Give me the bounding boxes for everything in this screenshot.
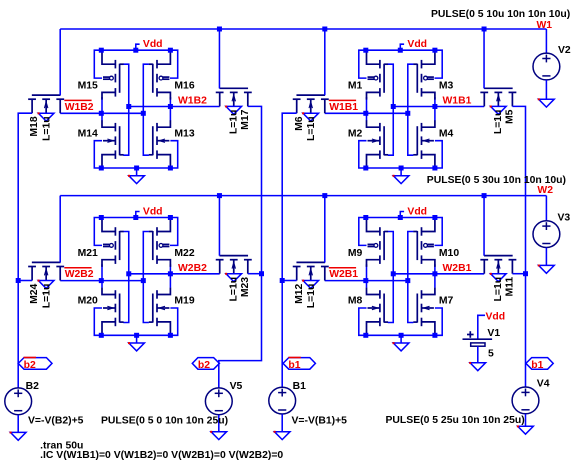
svg-text:M23: M23 — [240, 277, 251, 297]
ground under B2 — [10, 432, 26, 440]
transistor M16 (PMOS) — [149, 52, 171, 100]
wire bulk of M14 to gnd rail — [94, 141, 102, 168]
wire Vdd tap — [400, 212, 404, 218]
junction M23 tap — [259, 271, 264, 276]
junction — [363, 111, 368, 116]
transistor M3 (PMOS) — [413, 52, 435, 100]
junction — [168, 166, 173, 171]
wire bulk of M2 to gnd rail — [359, 141, 367, 168]
junction — [168, 48, 173, 53]
junction M24 tap — [16, 278, 21, 283]
wire M9 drain to node — [366, 264, 368, 280]
junction — [126, 104, 131, 109]
wire Vdd rail — [101, 49, 170, 51]
wire Vdd tap — [400, 44, 404, 50]
svg-text:M12: M12 — [294, 283, 305, 303]
junction — [432, 48, 437, 53]
wire Vdd rail — [366, 49, 435, 51]
junction — [99, 278, 104, 283]
transistor M23 (access NMOS) — [216, 256, 252, 274]
svg-text:V1: V1 — [487, 328, 500, 339]
wire W2 to M24 gate — [59, 196, 61, 263]
wire V2 to ground — [545, 80, 547, 99]
wire V3 to ground — [545, 248, 547, 266]
wire gates of M21,M20 cross-couple — [123, 232, 128, 323]
transistor M20 (NMOS) — [102, 288, 124, 336]
wire bulk of M3 to Vdd — [435, 50, 443, 78]
wire Vdd rail — [101, 217, 170, 219]
svg-text:W2: W2 — [537, 185, 553, 196]
svg-text:M4: M4 — [439, 128, 454, 139]
svg-text:M10: M10 — [439, 248, 459, 259]
voltage source B1 — [269, 387, 296, 414]
ground of cell — [393, 343, 409, 351]
junction — [99, 215, 104, 220]
svg-text:W2B1: W2B1 — [329, 269, 358, 280]
svg-text:V5: V5 — [230, 381, 243, 392]
wire bit line b2 (left bus) — [18, 113, 32, 388]
wire M23 right terminal — [248, 273, 262, 275]
junction — [217, 193, 222, 198]
transistor M12 (access NMOS) — [293, 262, 329, 280]
voltage source B2 — [5, 388, 32, 415]
ground at bulk of M11 — [491, 274, 507, 282]
wire Vdd tap — [136, 44, 140, 50]
wire bulk of M10 to Vdd — [435, 218, 443, 246]
svg-text:L=1u: L=1u — [493, 277, 504, 302]
voltage source V5 — [205, 388, 232, 415]
svg-text:W1B2: W1B2 — [65, 102, 94, 113]
wire bulk of M15 to Vdd — [94, 50, 102, 78]
transistor M15 (PMOS) — [102, 52, 124, 100]
wire Vdd rail — [366, 217, 435, 219]
wire B2 to ground — [17, 415, 19, 433]
wire M22 drain to node — [169, 264, 171, 274]
wire M24 left terminal — [18, 280, 32, 282]
transistor M24 (access NMOS) — [28, 262, 64, 280]
wire W2 to M12 gate — [324, 196, 326, 263]
wire node W2B1 row — [393, 273, 484, 275]
svg-text:M17: M17 — [240, 109, 251, 129]
transistor M21 (PMOS) — [102, 219, 124, 267]
wire M7 drain to node — [434, 274, 436, 288]
voltage source V3 — [533, 221, 560, 248]
junction M11 tap — [523, 271, 528, 276]
wire W1 to M5 gate — [483, 29, 485, 88]
junction — [432, 271, 437, 276]
junction — [363, 278, 368, 283]
junction — [399, 166, 404, 171]
svg-text:Vdd: Vdd — [143, 207, 163, 218]
transistor M13 (NMOS) — [149, 120, 171, 168]
wire Vdd tap — [136, 212, 140, 218]
wire ground stem — [400, 168, 402, 176]
junction — [99, 333, 104, 338]
svg-text:M20: M20 — [78, 296, 98, 307]
wire bulk of M8 to gnd rail — [359, 308, 367, 335]
wire bit line b2 (mid bus) — [219, 106, 262, 387]
junction — [482, 27, 487, 32]
svg-text:M19: M19 — [174, 296, 194, 307]
transistor M5 (access NMOS) — [480, 88, 516, 106]
wire gates of M9,M8 cross-couple — [388, 232, 393, 323]
wire M15 drain to node — [101, 97, 103, 113]
svg-text:W1: W1 — [537, 20, 553, 31]
wire bulk of M16 to Vdd — [170, 50, 178, 78]
svg-text:M16: M16 — [174, 81, 194, 92]
wire bit line b1 (B1 bus) — [282, 113, 297, 387]
ground at bulk of M17 — [226, 106, 242, 114]
transistor M17 (access NMOS) — [216, 88, 252, 106]
svg-text:.IC V(W1B1)=0 V(W1B2)=0 V(W2B1: .IC V(W1B1)=0 V(W1B2)=0 V(W2B1)=0 V(W2B2… — [40, 450, 283, 461]
svg-text:V3: V3 — [558, 213, 571, 224]
wire M16 drain to node — [169, 97, 171, 107]
transistor M10 (PMOS) — [413, 219, 435, 267]
svg-text:V=-V(B1)+5: V=-V(B1)+5 — [292, 415, 348, 426]
svg-text:L=1u: L=1u — [42, 116, 53, 141]
junction — [126, 271, 131, 276]
wire ground rail — [366, 167, 435, 169]
wire M11 right terminal — [512, 273, 525, 275]
svg-text:V=-V(B2)+5: V=-V(B2)+5 — [28, 415, 84, 426]
junction — [363, 333, 368, 338]
wire M21 drain to node — [101, 264, 103, 280]
wire W2 to M11 gate — [483, 196, 485, 256]
transistor M19 (NMOS) — [149, 288, 171, 336]
svg-text:M18: M18 — [29, 116, 40, 136]
wire ground stem — [136, 168, 138, 176]
junction — [322, 27, 327, 32]
ground of cell — [129, 343, 145, 351]
wire bulk of M9 to Vdd — [359, 218, 367, 246]
svg-text:W2B2: W2B2 — [178, 263, 207, 274]
svg-text:M13: M13 — [174, 128, 194, 139]
wire bulk of M20 to gnd rail — [94, 308, 102, 335]
svg-text:W1B1: W1B1 — [329, 102, 358, 113]
junction — [405, 278, 410, 283]
junction — [363, 215, 368, 220]
svg-text:5: 5 — [488, 349, 494, 360]
wire M12 left terminal — [282, 280, 297, 282]
wire V4 to ground — [525, 414, 527, 426]
wire ground stem — [136, 335, 138, 343]
junction — [405, 111, 410, 116]
svg-text:V2: V2 — [558, 45, 571, 56]
junction — [432, 104, 437, 109]
voltage source V2 — [533, 53, 560, 80]
junction — [217, 27, 222, 32]
svg-text:PULSE(0 5 25u 10n 10n 25u): PULSE(0 5 25u 10n 10n 25u) — [386, 415, 525, 426]
svg-text:B1: B1 — [293, 381, 307, 392]
ground of cell — [129, 176, 145, 184]
junction — [432, 166, 437, 171]
wire bulk of M7 to gnd rail — [435, 308, 442, 335]
svg-text:M24: M24 — [29, 283, 40, 303]
ground at bulk of M12 — [303, 281, 319, 289]
ground under V1 — [470, 363, 486, 371]
junction — [322, 193, 327, 198]
transistor M7 (NMOS) — [413, 288, 435, 336]
wire bulk of M1 to Vdd — [359, 50, 367, 78]
svg-text:M9: M9 — [348, 248, 363, 259]
wire W1 to M6 gate — [324, 29, 326, 95]
wire bit line b1 (right bus) — [512, 106, 525, 387]
wire M4 drain to node — [434, 107, 436, 121]
wire M20 drain to node — [101, 281, 103, 288]
svg-text:M2: M2 — [348, 128, 363, 139]
svg-text:M7: M7 — [439, 296, 454, 307]
transistor M2 (NMOS) — [367, 120, 389, 168]
wire gates of M1,M2 cross-couple — [388, 64, 393, 155]
port b1 at V4 — [526, 358, 553, 370]
wire V5 to ground — [218, 415, 220, 432]
junction — [398, 215, 403, 220]
wire M10 drain to node — [434, 264, 436, 274]
junction — [398, 48, 403, 53]
svg-text:W1B2: W1B2 — [178, 96, 207, 107]
svg-text:Vdd: Vdd — [407, 39, 427, 50]
junction — [133, 48, 138, 53]
wire M1 drain to node — [366, 97, 368, 113]
junction — [432, 333, 437, 338]
port b2 at V5 — [192, 358, 219, 370]
junction M12 tap — [280, 278, 285, 283]
wire M19 drain to node — [169, 274, 171, 288]
svg-text:M3: M3 — [439, 81, 454, 92]
svg-text:W2B2: W2B2 — [65, 269, 94, 280]
svg-text:W1B1: W1B1 — [443, 96, 472, 107]
port b1 (inverted) at B1 — [283, 358, 315, 370]
junction — [482, 193, 487, 198]
svg-text:M15: M15 — [78, 81, 98, 92]
wire M3 drain to node — [434, 97, 436, 107]
wire gates of M3,M4 cross-couple — [408, 64, 414, 155]
wire W2 word line rail — [60, 195, 546, 197]
wire bulk of M4 to gnd rail — [435, 141, 442, 168]
junction — [168, 104, 173, 109]
voltage source V4 — [512, 387, 539, 414]
svg-text:b1: b1 — [531, 360, 543, 371]
junction — [99, 111, 104, 116]
ground at bulk of M23 — [226, 274, 242, 282]
wire W2 to V3 — [545, 196, 547, 221]
wire bulk of M22 to Vdd — [170, 218, 178, 246]
transistor M1 (PMOS) — [367, 52, 389, 100]
wire ground rail — [101, 334, 170, 336]
wire gates of M15,M14 cross-couple — [123, 64, 128, 155]
svg-text:PULSE(0 5 0 10n 10n 25u): PULSE(0 5 0 10n 10n 25u) — [101, 415, 228, 426]
wire ground rail — [366, 334, 435, 336]
svg-text:Vdd: Vdd — [143, 39, 163, 50]
junction — [432, 215, 437, 220]
wire bulk of M21 to Vdd — [94, 218, 102, 246]
wire W1 to M18 gate — [59, 29, 61, 95]
wire bulk of M13 to gnd rail — [170, 141, 177, 168]
junction — [399, 333, 404, 338]
junction — [168, 215, 173, 220]
junction — [168, 333, 173, 338]
svg-text:W2B1: W2B1 — [443, 263, 472, 274]
svg-text:V4: V4 — [537, 379, 550, 390]
junction — [134, 333, 139, 338]
svg-text:M6: M6 — [294, 116, 305, 131]
svg-text:PULSE(0 5 10u 10n 10n 10u): PULSE(0 5 10u 10n 10n 10u) — [431, 9, 570, 20]
wire gates of M22,M19 cross-couple — [143, 232, 149, 323]
svg-text:b2: b2 — [24, 360, 36, 371]
wire node W2B2-bar row — [60, 280, 143, 282]
junction — [363, 48, 368, 53]
junction — [168, 271, 173, 276]
wire ground rail — [101, 167, 170, 169]
ground under V2 — [539, 99, 555, 107]
svg-text:L=1u: L=1u — [306, 284, 317, 309]
svg-text:b2: b2 — [198, 360, 210, 371]
junction — [134, 166, 139, 171]
wire node W1B2 row — [129, 106, 220, 108]
transistor M4 (NMOS) — [413, 120, 435, 168]
transistor M22 (PMOS) — [149, 219, 171, 267]
wire node W2B1-bar row — [325, 280, 408, 282]
wire ground stem — [400, 335, 402, 343]
svg-text:M22: M22 — [174, 248, 194, 259]
ground at bulk of M18 — [38, 113, 54, 121]
ground at bulk of M6 — [303, 113, 319, 121]
wire W1 to M17 gate — [218, 29, 220, 88]
junction — [133, 215, 138, 220]
junction — [391, 271, 396, 276]
transistor M11 (access NMOS) — [480, 256, 516, 274]
wire node W1B1-bar row — [325, 112, 408, 114]
ground under V4 — [518, 426, 534, 434]
wire gates of M16,M13 cross-couple — [143, 64, 149, 155]
svg-text:Vdd: Vdd — [407, 207, 427, 218]
svg-text:B2: B2 — [26, 381, 40, 392]
svg-text:M8: M8 — [348, 296, 363, 307]
ground at bulk of M24 — [38, 281, 54, 289]
ground under B1 — [274, 432, 290, 440]
wire M8 drain to node — [366, 281, 368, 288]
junction — [363, 166, 368, 171]
junction — [99, 166, 104, 171]
svg-text:L=1u: L=1u — [229, 277, 240, 302]
wire node W1B2-bar row — [60, 112, 143, 114]
wire M14 drain to node — [101, 113, 103, 120]
svg-text:L=1u: L=1u — [229, 110, 240, 135]
ground of cell — [393, 176, 409, 184]
svg-text:b1: b1 — [288, 360, 300, 371]
wire M2 drain to node — [366, 113, 368, 120]
wire W1 to V2 — [545, 29, 547, 53]
wire gates of M10,M7 cross-couple — [408, 232, 414, 323]
wire M13 drain to node — [169, 107, 171, 121]
transistor M18 (access NMOS) — [28, 95, 64, 113]
transistor M9 (PMOS) — [367, 219, 389, 267]
junction — [141, 278, 146, 283]
junction — [141, 111, 146, 116]
svg-text:M5: M5 — [505, 109, 516, 124]
svg-text:Vdd: Vdd — [486, 311, 506, 322]
wire V1 minus to ground — [477, 346, 479, 363]
junction — [99, 48, 104, 53]
svg-text:M1: M1 — [348, 81, 363, 92]
wire node W1B1 row — [393, 106, 484, 108]
wire node W2B2 row — [129, 273, 220, 275]
wire B1 to ground — [281, 414, 283, 432]
transistor M8 (NMOS) — [367, 288, 389, 336]
transistor M6 (access NMOS) — [293, 95, 329, 113]
svg-text:L=1u: L=1u — [306, 116, 317, 141]
ground under V3 — [539, 265, 555, 273]
ground at bulk of M5 — [491, 106, 507, 114]
svg-text:M14: M14 — [78, 128, 98, 139]
wire V1 plus to Vdd label — [478, 315, 485, 339]
transistor M14 (NMOS) — [102, 120, 124, 168]
port b2 (inverted) at B2 — [18, 358, 52, 370]
svg-text:M21: M21 — [78, 248, 98, 259]
wire W2 to M23 gate — [218, 196, 220, 256]
wire W1 word line rail — [60, 28, 546, 30]
wire bulk of M19 to gnd rail — [170, 308, 177, 335]
svg-text:L=1u: L=1u — [42, 284, 53, 309]
svg-text:L=1u: L=1u — [493, 110, 504, 135]
junction — [391, 104, 396, 109]
svg-text:M11: M11 — [505, 277, 516, 297]
ground under V5 — [211, 432, 227, 440]
